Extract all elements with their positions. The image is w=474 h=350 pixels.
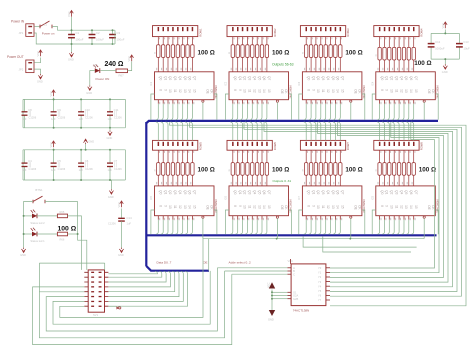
pin labels IC1	[156, 68, 194, 104]
svg-text:Q1: Q1	[163, 76, 167, 80]
pin labels IC4	[378, 68, 416, 104]
svg-text:8: 8	[233, 89, 237, 91]
svg-text:100 Ω: 100 Ω	[419, 167, 436, 174]
resistor network RN6 100 ohm	[229, 163, 269, 176]
wire IC3 outputs to bus	[299, 94, 365, 120]
svg-text:Q7: Q7	[414, 190, 418, 194]
svg-text:14: 14	[262, 205, 266, 209]
svg-text:14: 14	[188, 89, 192, 93]
svg-text:15: 15	[414, 205, 418, 209]
svg-text:C1206: C1206	[85, 116, 93, 120]
svg-text:Q4: Q4	[178, 190, 182, 194]
svg-text:S1: S1	[44, 23, 48, 27]
wire cap row B left end	[22, 150, 24, 180]
pin labels IC8	[378, 182, 416, 220]
VCC arrow JP2	[39, 50, 43, 56]
svg-text:Q4: Q4	[399, 190, 403, 194]
svg-text:13: 13	[257, 89, 261, 93]
svg-text:R67: R67	[119, 74, 125, 78]
wire address select 0	[217, 267, 287, 269]
svg-text:ROW2: ROW2	[273, 28, 277, 37]
capacitor C5	[53, 150, 55, 163]
VCC arrow C12 C13	[444, 22, 448, 28]
svg-text:Q1: Q1	[238, 76, 242, 80]
svg-text:OE: OE	[203, 261, 207, 265]
wire connector SV8 to resistor network	[380, 150, 416, 162]
svg-text:VCC: VCC	[49, 91, 53, 97]
svg-text:OE: OE	[206, 89, 210, 94]
svg-text:Power on: Power on	[42, 31, 55, 35]
wire latch select Y5	[330, 122, 444, 277]
wire connector SV1 to resistor network	[158, 37, 194, 45]
capacitor C9	[53, 99, 55, 111]
svg-text:VCC: VCC	[67, 11, 71, 17]
ground up cap row B	[83, 139, 87, 144]
bus bottom stub	[146, 266, 209, 271]
svg-text:Q7: Q7	[341, 190, 345, 194]
svg-text:Power OUT: Power OUT	[7, 55, 24, 59]
wire IC4 outputs to bus	[372, 94, 438, 120]
svg-text:C1206: C1206	[29, 116, 37, 120]
svg-text:Q2: Q2	[390, 190, 394, 194]
op-amp IC5 74HC595N	[150, 186, 218, 216]
svg-text:Q1: Q1	[311, 190, 315, 194]
capacitor C8	[24, 99, 26, 111]
op-amp IC8 74HC595N	[371, 186, 439, 216]
svg-text:12: 12	[178, 89, 182, 93]
svg-text:OE: OE	[280, 89, 284, 94]
svg-text:74HC595N: 74HC595N	[214, 200, 218, 213]
svg-text:Q7: Q7	[414, 76, 418, 80]
svg-text:100uF: 100uF	[76, 38, 84, 42]
wire latch select Y1	[190, 122, 462, 296]
svg-text:1uF: 1uF	[22, 168, 27, 172]
wire data D5	[108, 271, 179, 296]
svg-text:VCC: VCC	[441, 23, 445, 29]
svg-text:1uF: 1uF	[79, 168, 84, 172]
pin labels IC2	[231, 68, 269, 104]
svg-text:VCC: VCC	[36, 51, 40, 57]
op-amp IC7 74HC595N	[298, 186, 366, 216]
wire latch select Y3	[264, 122, 453, 287]
svg-text:C12: C12	[435, 40, 441, 44]
svg-text:G2B: G2B	[293, 297, 298, 301]
svg-text:Q3: Q3	[394, 76, 398, 80]
VCC arrow C14	[120, 201, 124, 207]
svg-text:Q6: Q6	[336, 190, 340, 194]
svg-text:OE: OE	[427, 205, 431, 210]
svg-text:13: 13	[404, 205, 408, 209]
svg-text:8: 8	[380, 205, 384, 207]
svg-text:OE: OE	[354, 205, 358, 210]
svg-text:C4: C4	[28, 159, 32, 163]
wire latch select Y2	[244, 122, 457, 291]
svg-text:100 Ω: 100 Ω	[198, 50, 215, 57]
connector SV3	[300, 26, 350, 37]
wire header loop 4	[60, 239, 203, 317]
wire switch leg down to header	[78, 202, 87, 269]
op-amp IC2 74HC595N	[225, 72, 293, 100]
svg-text:OE: OE	[427, 89, 431, 94]
svg-text:VCC: VCC	[267, 282, 271, 288]
svg-text:Q6: Q6	[336, 76, 340, 80]
connector JP1 Power IN	[11, 20, 34, 37]
svg-text:Outputs 0..31: Outputs 0..31	[273, 179, 292, 183]
wire cap row B GND rail	[23, 179, 125, 181]
resistor network RN7 100 ohm	[302, 163, 342, 176]
svg-text:GND: GND	[37, 80, 43, 84]
wire cap row B VCC rail	[23, 149, 125, 151]
svg-text:Y0: Y0	[318, 266, 322, 270]
svg-text:13: 13	[183, 89, 187, 93]
wire IC6 outputs to bus	[225, 210, 291, 234]
wire switch left leg	[24, 202, 33, 248]
wire resistors to IC5	[158, 175, 192, 186]
svg-text:12: 12	[326, 89, 330, 93]
svg-text:1uF: 1uF	[79, 117, 84, 121]
wire data D7	[108, 271, 187, 306]
svg-text:Q2: Q2	[316, 76, 320, 80]
svg-text:Q1: Q1	[238, 190, 242, 194]
wire cap row A right end	[124, 99, 126, 127]
svg-text:14: 14	[188, 205, 192, 209]
wire VCC to rail	[71, 17, 73, 30]
svg-text:12: 12	[399, 89, 403, 93]
resistor network RN4 100 ohm	[375, 47, 415, 60]
svg-text:VCC: VCC	[49, 142, 53, 148]
svg-text:VCC: VCC	[117, 202, 121, 208]
svg-text:Q0: Q0	[380, 76, 384, 80]
capacitor C6	[80, 150, 82, 163]
wire resistors to IC4	[380, 60, 414, 72]
svg-text:SV1: SV1	[93, 313, 99, 317]
svg-text:13: 13	[404, 89, 408, 93]
wire R66 to down wire	[68, 233, 78, 235]
wire JP1 pin1 to switch	[34, 26, 40, 28]
pin OE IC4	[423, 100, 425, 120]
svg-text:C1206: C1206	[58, 116, 66, 120]
wire OE to bus stub	[208, 239, 210, 271]
svg-text:100 Ω: 100 Ω	[198, 167, 215, 174]
wire switch to VCC rail	[52, 27, 115, 31]
ground status LEDs	[21, 248, 25, 253]
pin labels IC3	[304, 68, 342, 104]
svg-text:IC7: IC7	[298, 195, 301, 200]
svg-text:IC4: IC4	[371, 81, 374, 86]
resistor network RN3 100 ohm	[302, 45, 342, 58]
op-amp IC1 74HC595N	[150, 72, 218, 100]
wire data D4	[108, 271, 174, 291]
connector SV1	[153, 26, 203, 37]
svg-text:Q4: Q4	[253, 190, 257, 194]
op-amp IC3 74HC595N	[298, 72, 366, 100]
svg-text:1000uF: 1000uF	[435, 47, 445, 51]
wire latch select Y6	[330, 122, 439, 273]
svg-text:74HC595N: 74HC595N	[362, 200, 366, 213]
svg-text:9: 9	[311, 89, 315, 91]
svg-text:C9: C9	[57, 108, 61, 112]
wire connector SV4 to resistor network	[380, 37, 416, 48]
svg-text:Y5: Y5	[318, 289, 322, 293]
resistor R67	[116, 69, 128, 78]
svg-text:12: 12	[178, 205, 182, 209]
svg-text:BTN1: BTN1	[35, 188, 43, 192]
svg-text:12: 12	[399, 205, 403, 209]
op-amp IC6 74HC595N	[225, 186, 293, 216]
connector SV8	[374, 140, 424, 150]
svg-text:1uF: 1uF	[51, 117, 56, 121]
VCC arrow U9	[269, 282, 275, 288]
wire header loop 2	[46, 268, 217, 331]
wire VCC to G1	[271, 290, 273, 311]
wire latch select Y7	[330, 122, 435, 268]
wire data D6	[108, 271, 183, 301]
svg-text:11: 11	[394, 205, 398, 209]
svg-text:74HC595N: 74HC595N	[214, 85, 218, 98]
pin OE IC7	[350, 216, 352, 239]
svg-text:C3: C3	[117, 31, 121, 35]
wire connector SV3 to resistor network	[306, 37, 342, 45]
bus middle horizontal	[146, 234, 436, 236]
svg-text:C2: C2	[96, 31, 100, 35]
svg-text:Q1: Q1	[163, 190, 167, 194]
svg-text:GND: GND	[20, 253, 26, 257]
wire cap row A left end	[22, 99, 24, 127]
svg-text:C1206: C1206	[29, 167, 37, 171]
wire IC7 outputs to bus	[299, 210, 365, 234]
svg-text:Status led 1: Status led 1	[30, 239, 45, 243]
svg-text:13: 13	[183, 205, 187, 209]
wire LED cathode to GND	[90, 71, 95, 86]
wire status leds to header top	[80, 263, 82, 270]
wire VCC to caps	[444, 30, 446, 34]
ground U9	[269, 310, 275, 316]
VCC arrow cap row A	[52, 90, 56, 96]
wire bus to connector SV5	[156, 122, 193, 140]
switch S1	[40, 21, 55, 35]
svg-text:Q2: Q2	[168, 190, 172, 194]
capacitor C2	[91, 30, 93, 34]
svg-text:100 Ω: 100 Ω	[58, 226, 77, 233]
svg-text:13: 13	[331, 205, 335, 209]
svg-text:14: 14	[409, 205, 413, 209]
svg-text:Q0: Q0	[159, 190, 163, 194]
svg-text:C14: C14	[127, 216, 133, 220]
svg-text:1uF: 1uF	[51, 168, 56, 172]
svg-text:Q5: Q5	[331, 190, 335, 194]
VCC arrow power rail	[70, 11, 74, 17]
svg-text:GND: GND	[268, 318, 274, 322]
svg-text:12: 12	[253, 89, 257, 93]
resistor network RN5 100 ohm	[154, 163, 194, 176]
wire enable tap 2	[323, 236, 411, 252]
svg-text:Q7: Q7	[267, 76, 271, 80]
svg-text:12: 12	[253, 205, 257, 209]
svg-text:Q5: Q5	[183, 76, 187, 80]
svg-text:ROW8: ROW8	[420, 142, 424, 151]
connector SV6	[227, 140, 277, 150]
bus top horizontal	[146, 121, 438, 123]
svg-text:14: 14	[262, 89, 266, 93]
connector SV2	[227, 26, 277, 37]
svg-text:Q0: Q0	[159, 76, 163, 80]
ground power LED	[88, 85, 92, 90]
op-amp U9 74ACT138N	[287, 259, 330, 313]
svg-text:11: 11	[248, 89, 252, 93]
svg-text:R65: R65	[60, 210, 65, 214]
svg-text:Q4: Q4	[253, 76, 257, 80]
svg-text:Q1: Q1	[385, 76, 389, 80]
svg-text:11: 11	[173, 205, 177, 209]
VCC arrow cap row B	[52, 141, 56, 147]
svg-text:10uF: 10uF	[463, 47, 470, 51]
wire JP2 pin1 to VCC	[34, 58, 40, 63]
wire rail into header top	[104, 263, 106, 270]
svg-text:Q2: Q2	[390, 76, 394, 80]
svg-text:Q6: Q6	[262, 190, 266, 194]
svg-text:ROW6: ROW6	[273, 142, 277, 151]
wire bus to connector SV8	[377, 122, 414, 140]
wire latch select Y4	[317, 122, 448, 282]
pin labels IC5	[156, 182, 194, 220]
svg-text:15: 15	[341, 205, 345, 209]
svg-text:Y1: Y1	[318, 271, 322, 275]
connector SV9 data header	[84, 270, 108, 317]
pin OE IC8	[423, 216, 425, 239]
pin OE IC6	[276, 216, 278, 239]
connector SV7	[300, 140, 350, 150]
pin labels IC6	[231, 182, 269, 220]
svg-text:9: 9	[385, 205, 389, 207]
svg-text:R66: R66	[60, 238, 65, 242]
svg-text:13: 13	[331, 89, 335, 93]
svg-text:IC8: IC8	[371, 195, 374, 200]
svg-text:Q5: Q5	[257, 190, 261, 194]
svg-text:100uF: 100uF	[117, 38, 125, 42]
svg-text:C1206: C1206	[108, 222, 116, 226]
svg-text:1uF: 1uF	[22, 117, 27, 121]
testpoint flag at header	[108, 306, 121, 309]
svg-text:GND: GND	[88, 139, 94, 143]
svg-text:10: 10	[316, 205, 320, 209]
svg-text:100 Ω: 100 Ω	[414, 60, 431, 67]
svg-text:Q5: Q5	[183, 190, 187, 194]
svg-text:Q4: Q4	[326, 76, 330, 80]
wire IC2 outputs to bus	[225, 94, 291, 120]
svg-text:Data D0..7: Data D0..7	[157, 261, 172, 265]
ground power rail	[69, 52, 73, 57]
svg-text:GND: GND	[68, 58, 74, 62]
wire rail right end	[114, 30, 116, 44]
svg-text:100 Ω: 100 Ω	[345, 167, 362, 174]
capacitor C7	[109, 150, 111, 163]
connector JP2 Power OUT	[7, 55, 34, 73]
svg-text:Y4: Y4	[318, 284, 322, 288]
pin labels IC7	[304, 182, 342, 220]
svg-text:LED: LED	[93, 65, 98, 68]
bus vertical segment	[145, 122, 147, 266]
svg-text:8: 8	[306, 89, 310, 91]
wire address select 1	[225, 270, 288, 272]
svg-text:74HC595N: 74HC595N	[289, 85, 293, 98]
svg-text:Power IN: Power IN	[11, 20, 25, 24]
svg-text:GND: GND	[118, 253, 124, 257]
svg-text:74HC595N: 74HC595N	[289, 200, 293, 213]
svg-text:9: 9	[238, 89, 242, 91]
svg-text:10: 10	[243, 205, 247, 209]
svg-text:Q2: Q2	[168, 76, 172, 80]
wire resistors to IC1	[158, 57, 192, 71]
svg-text:Q3: Q3	[173, 76, 177, 80]
svg-text:C1206: C1206	[58, 167, 66, 171]
svg-text:Q6: Q6	[409, 190, 413, 194]
svg-text:10: 10	[390, 205, 394, 209]
svg-text:10: 10	[316, 89, 320, 93]
svg-text:IC3: IC3	[298, 81, 301, 86]
svg-text:10: 10	[168, 89, 172, 93]
svg-text:Y7: Y7	[318, 298, 322, 302]
svg-text:11: 11	[321, 205, 325, 209]
switch S2 status	[33, 188, 45, 203]
svg-text:VCC: VCC	[127, 56, 131, 62]
resistor R66	[57, 232, 67, 241]
svg-text:Status led 2: Status led 2	[30, 221, 45, 225]
connector SV5	[153, 140, 203, 150]
svg-text:100uF: 100uF	[96, 38, 104, 42]
ground JP2	[38, 74, 42, 79]
svg-text:11: 11	[173, 89, 177, 93]
svg-text:Power ON: Power ON	[96, 77, 110, 81]
svg-text:15: 15	[267, 89, 271, 93]
svg-text:Q6: Q6	[188, 76, 192, 80]
svg-text:ROW1: ROW1	[198, 28, 202, 37]
svg-text:Y3: Y3	[318, 280, 322, 284]
svg-text:11: 11	[394, 89, 398, 93]
wire cap row A to GND	[109, 128, 111, 131]
wire connector SV6 to resistor network	[233, 150, 269, 162]
svg-text:Q0: Q0	[380, 190, 384, 194]
wire JP2 pin2 to GND	[34, 69, 40, 74]
wire resistors to IC8	[380, 175, 414, 186]
svg-text:ROW7: ROW7	[346, 142, 350, 151]
wire IC1 outputs to bus	[151, 94, 217, 120]
svg-text:13: 13	[257, 205, 261, 209]
svg-text:Q0: Q0	[233, 76, 237, 80]
svg-text:11: 11	[248, 205, 252, 209]
svg-text:8: 8	[306, 205, 310, 207]
resistor network RN2 100 ohm	[229, 45, 269, 58]
wire resistors to IC2	[233, 57, 267, 71]
svg-text:14: 14	[409, 89, 413, 93]
wire LED to R67	[101, 70, 117, 72]
pin OE IC2	[276, 100, 278, 120]
wire connector SV5 to resistor network	[158, 150, 194, 162]
svg-text:C5: C5	[57, 159, 61, 163]
resistor network RN8 100 ohm	[375, 163, 415, 176]
svg-text:GND: GND	[107, 136, 113, 140]
svg-text:Q6: Q6	[262, 76, 266, 80]
svg-text:ROW5: ROW5	[198, 142, 202, 151]
svg-text:Q7: Q7	[341, 76, 345, 80]
svg-text:OE: OE	[280, 205, 284, 210]
svg-text:Q7: Q7	[193, 190, 197, 194]
svg-text:C: C	[293, 272, 295, 276]
capacitor C10	[80, 99, 82, 111]
wire caps to GND	[431, 58, 459, 60]
wire LED1 row	[24, 233, 32, 235]
wire data D2	[108, 271, 166, 282]
svg-text:JP2: JP2	[19, 67, 24, 71]
